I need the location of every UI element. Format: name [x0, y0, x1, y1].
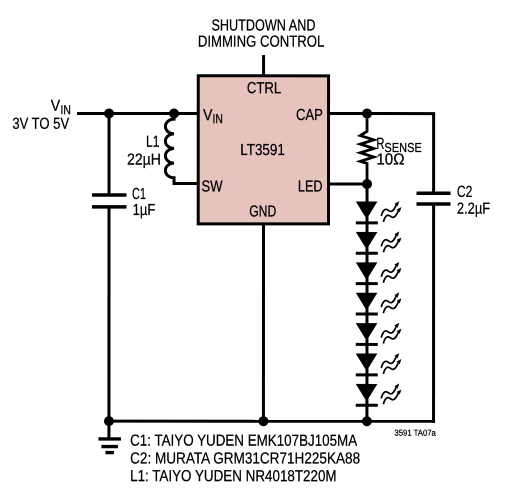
svg-text:L1: L1 [146, 134, 160, 151]
svg-text:DIMMING CONTROL: DIMMING CONTROL [198, 34, 325, 51]
svg-text:SHUTDOWN AND: SHUTDOWN AND [211, 17, 315, 34]
svg-text:LT3591: LT3591 [240, 142, 285, 159]
svg-text:IN: IN [213, 111, 223, 126]
svg-text:V: V [203, 107, 213, 124]
svg-text:C1: C1 [132, 186, 146, 203]
svg-text:GND: GND [249, 203, 276, 220]
svg-text:2.2µF: 2.2µF [457, 201, 490, 218]
svg-text:C1: TAIYO YUDEN EMK107BJ105MA: C1: TAIYO YUDEN EMK107BJ105MA [130, 433, 357, 450]
svg-text:V: V [51, 98, 61, 115]
svg-text:CAP: CAP [296, 107, 323, 124]
svg-text:1µF: 1µF [133, 202, 156, 219]
svg-text:LED: LED [298, 179, 323, 196]
svg-text:SW: SW [201, 178, 223, 195]
svg-text:C2: MURATA GRM31CR71H225KA88: C2: MURATA GRM31CR71H225KA88 [130, 450, 360, 467]
svg-text:3591 TA07a: 3591 TA07a [394, 428, 436, 438]
svg-text:10Ω: 10Ω [376, 152, 404, 169]
svg-text:22µH: 22µH [127, 152, 161, 169]
svg-text:CTRL: CTRL [247, 80, 281, 97]
svg-text:3V TO 5V: 3V TO 5V [12, 116, 69, 133]
svg-text:C2: C2 [457, 184, 473, 201]
svg-text:L1: TAIYO YUDEN NR4018T220M: L1: TAIYO YUDEN NR4018T220M [130, 468, 337, 485]
svg-text:R: R [376, 136, 384, 153]
